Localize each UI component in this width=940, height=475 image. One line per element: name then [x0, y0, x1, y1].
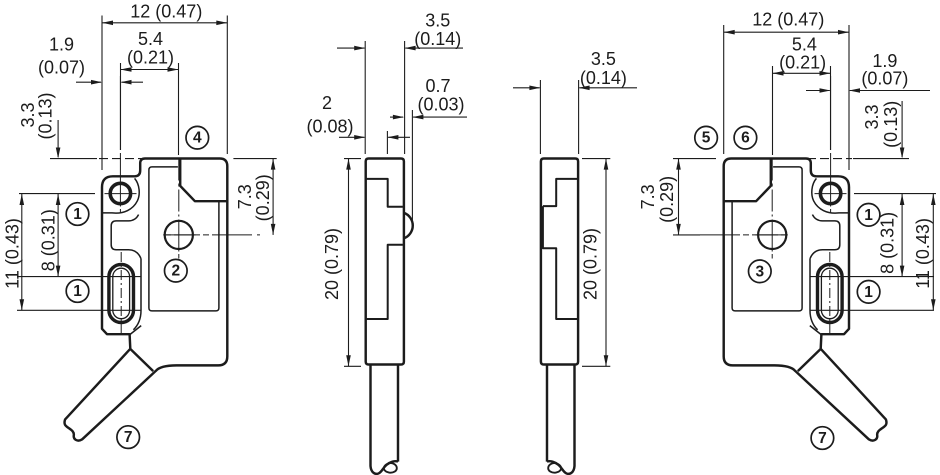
svg-text:8 (0.31): 8 (0.31) [38, 209, 58, 271]
label 6 [734, 126, 757, 149]
svg-text:1: 1 [73, 206, 82, 223]
svg-text:(0.13): (0.13) [881, 101, 901, 148]
svg-text:3.5: 3.5 [591, 49, 616, 69]
recess fillet bottom v4 [810, 250, 823, 259]
inner housing wall v4 [732, 167, 802, 311]
cable exit chamfer v4 [798, 349, 821, 371]
ear chamfer edge v4 [810, 326, 821, 335]
label 7 right [811, 427, 834, 450]
slot ring [109, 264, 134, 322]
label 2 [165, 259, 188, 282]
slot ring v4 [818, 264, 843, 322]
cable straight (view 3) [547, 365, 575, 474]
svg-text:(0.08): (0.08) [306, 117, 353, 137]
inner housing wall [149, 167, 219, 311]
dim 5.4 ext right v4 [830, 66, 832, 150]
svg-text:2: 2 [322, 93, 332, 113]
mounting hole ring v4 [820, 183, 840, 203]
side view 3 body [541, 159, 578, 365]
svg-text:7: 7 [818, 430, 827, 447]
side view 3 internal step upper [543, 179, 578, 206]
sensing centerline horizontal v4 [700, 234, 785, 236]
svg-text:20 (0.79): 20 (0.79) [581, 228, 601, 300]
dim 3.5 ext left v3 [539, 80, 541, 154]
svg-text:0.7: 0.7 [425, 76, 450, 96]
dim 11 line [21, 194, 23, 310]
recess between mounting holes v4 [823, 221, 840, 250]
mounting hole centerline horizontal [105, 193, 137, 195]
top edge extension right v4 [807, 158, 852, 160]
dim 5.4 extension left [120, 63, 122, 150]
label 1 bottom v4 [857, 281, 880, 304]
svg-text:(0.21): (0.21) [127, 48, 174, 68]
sensing centerline vertical v4 [771, 159, 773, 217]
label 5 [695, 126, 718, 149]
recess-to-boss fillet top [129, 215, 139, 221]
dim 0.7 line v2 [390, 116, 403, 118]
svg-text:1: 1 [864, 284, 873, 301]
svg-text:3.3: 3.3 [862, 104, 882, 129]
boss contour around slot v4 [810, 259, 818, 330]
slot centerline vertical v4 [829, 252, 831, 333]
svg-text:7: 7 [124, 429, 133, 446]
svg-text:6: 6 [741, 130, 750, 147]
dim 1.9 line v4 [806, 90, 830, 92]
dim 20 ext top v3 [582, 158, 610, 160]
dim 20 line v2 [348, 159, 350, 367]
sensing-face notch [180, 159, 227, 202]
side view body [366, 159, 404, 365]
side view 3 internal step mid [543, 206, 578, 319]
boss contour around mounting hole v4 [812, 178, 849, 213]
svg-text:(0.07): (0.07) [38, 58, 85, 78]
dim 12 ext left v4 [723, 25, 725, 154]
label 1 bottom [66, 280, 89, 303]
slot inner contour [113, 268, 130, 319]
label 1 top v4 [857, 204, 880, 227]
svg-text:20 (0.79): 20 (0.79) [322, 228, 342, 300]
sensing centerline horizontal [166, 234, 277, 236]
dim 3.5 ext right v3 [578, 80, 580, 154]
svg-text:5: 5 [702, 130, 711, 147]
mounting hole centerlines v4 [830, 76, 832, 150]
label 1 top [66, 203, 89, 226]
dim 3.5 ext right v2 [404, 41, 406, 154]
svg-text:11 (0.43): 11 (0.43) [913, 218, 933, 289]
dim 2 ext right v2 [386, 131, 388, 154]
sensing hole v4 [758, 221, 786, 249]
mounting hole ring [110, 183, 130, 203]
LED dome [404, 213, 413, 239]
dim 7.3 ext top (between views) [673, 158, 716, 160]
dim 7.3 line mid [678, 159, 680, 235]
svg-text:(0.14): (0.14) [580, 68, 627, 88]
dim 20 line v3 [605, 159, 607, 367]
dim 3.3 line [57, 120, 59, 157]
dim 0.7 ext right v2 [411, 110, 413, 222]
boss contour around mounting hole [102, 178, 139, 213]
mounting hole centerline vertical [119, 76, 121, 150]
slot centerline vertical [120, 252, 122, 333]
svg-text:3.5: 3.5 [425, 11, 450, 31]
side view internal step lower [366, 245, 403, 319]
dim 8 line v4 [901, 194, 903, 277]
slot lower center extension v4 [810, 309, 934, 311]
ear chamfer edge [130, 326, 141, 335]
slot upper center extension [17, 276, 141, 278]
svg-text:4: 4 [193, 130, 202, 147]
svg-text:11 (0.43): 11 (0.43) [3, 218, 23, 289]
recess fillet top v4 [812, 215, 822, 221]
svg-text:7.3: 7.3 [235, 184, 255, 209]
dim 3.3 line v4 [901, 101, 903, 157]
dim 8 line [57, 194, 59, 277]
dim 12 extension right [226, 16, 228, 155]
sensing centerline vertical [178, 159, 180, 217]
label 7 left [117, 426, 140, 449]
dim 12 extension left [101, 16, 103, 171]
sensor body outline (front view, cable right) [724, 159, 887, 441]
svg-text:5.4: 5.4 [138, 29, 163, 49]
svg-text:1.9: 1.9 [49, 35, 74, 55]
sensor body outline (front view, cable left) [65, 159, 228, 441]
dim 12 ext right v4 [848, 25, 850, 170]
dim 1.9 line [76, 81, 101, 83]
dim 5.4 line v4 [773, 72, 831, 74]
dim 7.3 ext bottom (between views) [673, 234, 700, 236]
boss contour around slot [133, 259, 141, 330]
dim 5.4 extension right [178, 63, 180, 155]
dim 11 line v4 [932, 194, 934, 310]
dim 3.5 line v2 [337, 47, 365, 49]
dim 7.3 line v1 [272, 159, 274, 235]
label 4 [186, 126, 209, 149]
sensing hole crosshair v4 [771, 220, 773, 252]
label 3 [749, 260, 772, 283]
dim 20 ext bottom v3 [582, 365, 610, 367]
slot lower center extension [17, 309, 141, 311]
top edge extension left [50, 158, 97, 160]
svg-text:(0.07): (0.07) [861, 69, 908, 89]
svg-text:(0.21): (0.21) [779, 53, 826, 73]
sensing-face notch v4 [724, 159, 771, 202]
svg-text:(0.29): (0.29) [253, 174, 273, 221]
dim 2 line v2 [339, 136, 365, 138]
cable straight (side view) [371, 365, 399, 474]
dim 12 line v4 [724, 31, 849, 33]
slot inner contour v4 [821, 268, 838, 319]
dim 5.4 ext left v4 [772, 66, 774, 155]
svg-text:3: 3 [755, 263, 764, 280]
recess-to-boss fillet bottom [129, 250, 142, 259]
svg-text:1: 1 [73, 283, 82, 300]
dim 20 ext bottom v2 [344, 365, 361, 367]
svg-text:12 (0.47): 12 (0.47) [130, 2, 202, 22]
sensing hole crosshair [178, 220, 180, 252]
svg-text:1: 1 [864, 207, 873, 224]
svg-text:(0.14): (0.14) [414, 29, 461, 49]
dim 12 line [102, 22, 227, 24]
svg-text:(0.03): (0.03) [417, 95, 464, 115]
svg-text:12 (0.47): 12 (0.47) [752, 10, 824, 30]
dim 3.5 line v3 [513, 87, 540, 89]
hole center extension right v4 [854, 193, 936, 195]
svg-text:(0.29): (0.29) [657, 176, 677, 223]
dim 20 ext top v2 [344, 158, 361, 160]
svg-text:(0.13): (0.13) [36, 92, 56, 139]
slot upper center extension v4 [810, 276, 934, 278]
svg-text:2: 2 [171, 263, 180, 280]
svg-text:8 (0.31): 8 (0.31) [878, 212, 898, 274]
sensing hole [165, 221, 193, 249]
dim 3.5 ext left v2 [364, 41, 366, 154]
side view internal step upper [366, 179, 403, 207]
hole center extension left [19, 193, 95, 195]
dim 5.4 line [121, 69, 179, 71]
dim 7.3 extension top [233, 158, 276, 160]
svg-text:7.3: 7.3 [638, 184, 658, 209]
recess between mounting holes [111, 221, 128, 250]
cable exit chamfer [130, 349, 153, 371]
